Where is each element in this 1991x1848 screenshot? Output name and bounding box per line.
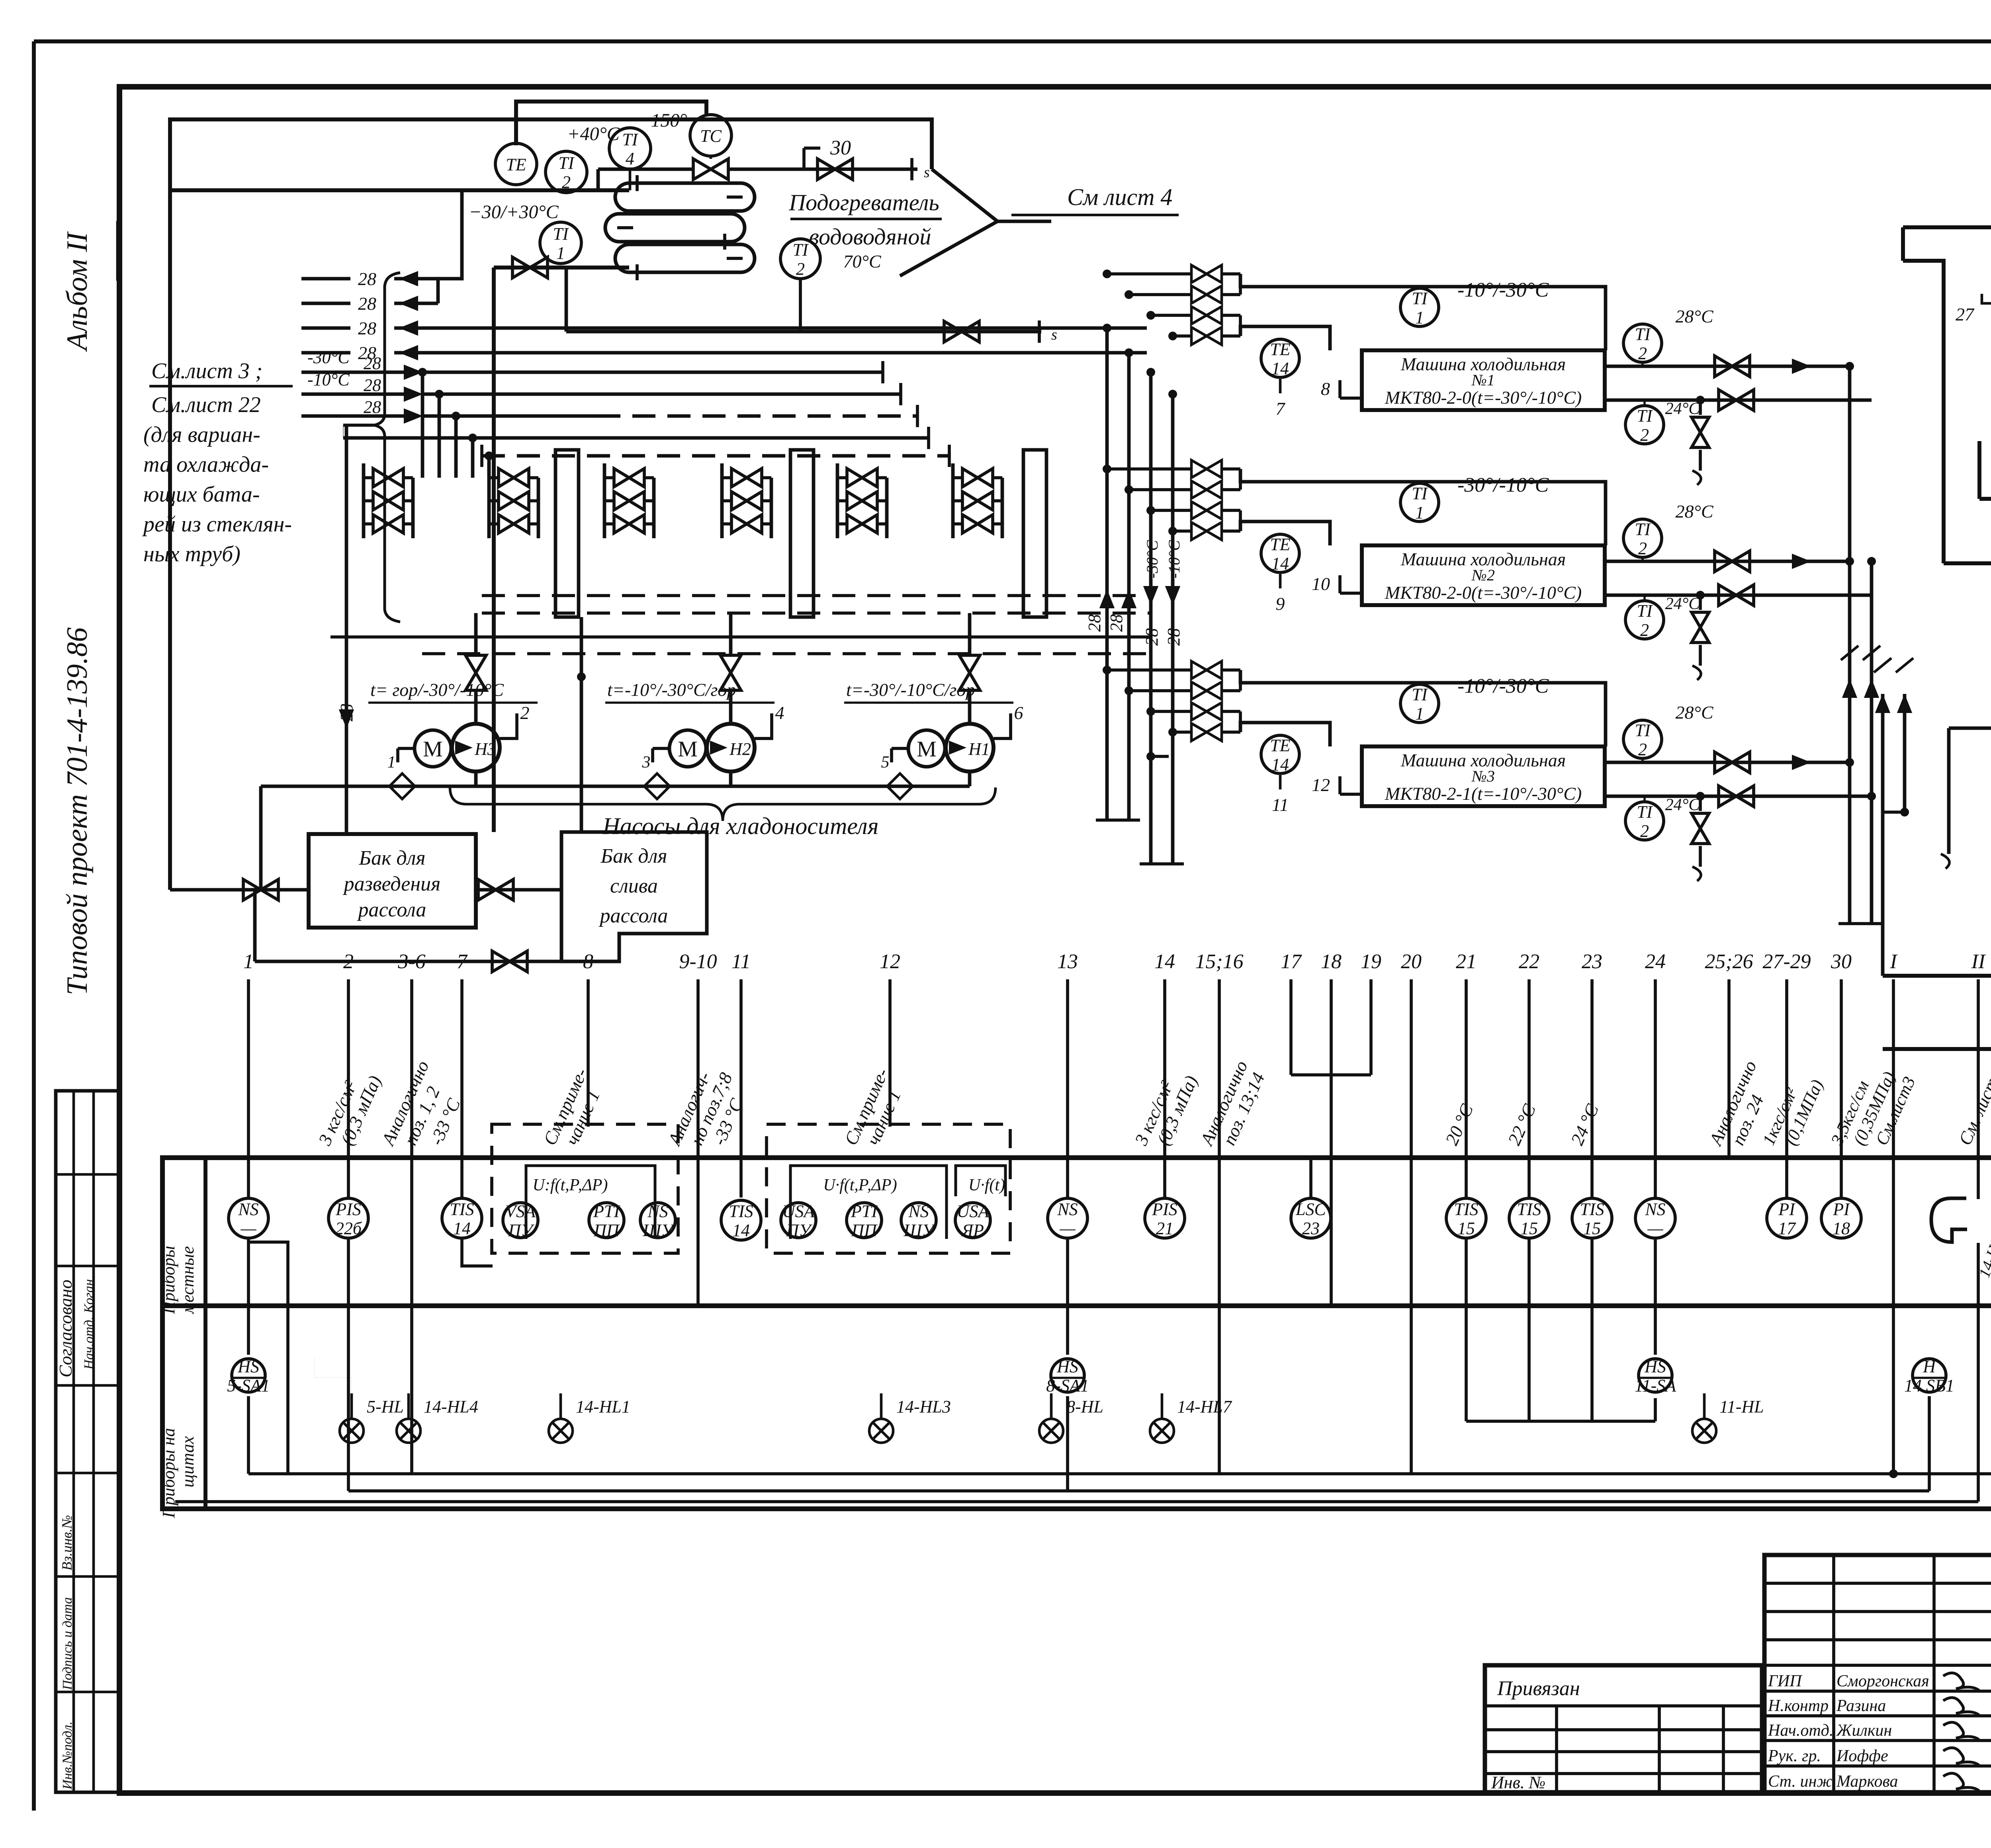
signal line I	[1892, 979, 1895, 1158]
instrument PIS 22b pos2	[329, 1198, 368, 1238]
svg-text:Нач.отд. Коган: Нач.отд. Коган	[82, 1279, 96, 1370]
wire lamp link 5HL	[315, 1358, 352, 1393]
wire 20 drop	[1410, 1158, 1413, 1474]
machine 3 feed pipes	[1239, 670, 1242, 691]
wire line2 y478	[170, 188, 629, 192]
machine 1 valve stack	[1191, 265, 1222, 283]
svg-text:МКТ80-2-0(t=-30°/-10°С): МКТ80-2-0(t=-30°/-10°С)	[1385, 387, 1582, 408]
svg-text:8-НL: 8-НL	[1066, 1397, 1103, 1416]
svg-text:ТЕ: ТЕ	[506, 155, 526, 174]
wire 28 supply line 1	[301, 371, 404, 374]
svg-text:21: 21	[1456, 950, 1477, 973]
signal line 30	[1840, 979, 1843, 1197]
wire main left vertical and top bus	[170, 119, 932, 890]
lamp 5-HL	[340, 1419, 364, 1443]
svg-text:15;16: 15;16	[1195, 950, 1243, 973]
svg-text:14-НL1: 14-НL1	[576, 1397, 630, 1416]
svg-text:18: 18	[1833, 1219, 1850, 1238]
instrument H 14 SB1	[1913, 1359, 1946, 1392]
svg-text:НS: НS	[1644, 1357, 1666, 1376]
svg-text:28: 28	[358, 318, 376, 338]
package dashed box 2	[767, 1124, 1010, 1253]
svg-text:ТЕ: ТЕ	[1270, 535, 1290, 554]
svg-text:11: 11	[1272, 795, 1289, 815]
svg-text:РТI: РТI	[593, 1201, 620, 1221]
wire TE riser	[516, 102, 706, 145]
svg-text:ПУ: ПУ	[786, 1221, 813, 1240]
signal line 24	[1654, 979, 1657, 1197]
sheet outer border	[34, 39, 1991, 43]
svg-text:t= гор/-30°/-10°С: t= гор/-30°/-10°С	[370, 680, 504, 700]
instrument NS ШУ pkg1	[640, 1203, 675, 1238]
svg-text:9-10: 9-10	[679, 950, 717, 973]
svg-text:ТIS: ТIS	[1517, 1199, 1541, 1219]
svg-text:слива: слива	[610, 875, 658, 897]
svg-text:4: 4	[775, 703, 784, 723]
wire pos13 drop	[1066, 1396, 1069, 1491]
svg-text:ТI: ТI	[1637, 601, 1653, 621]
svg-text:24°С: 24°С	[1665, 595, 1700, 613]
bowtie on line1	[818, 159, 853, 180]
svg-text:ТI: ТI	[622, 130, 638, 149]
svg-text:М: М	[423, 737, 443, 762]
svg-text:28: 28	[358, 293, 376, 314]
svg-text:U:f(t,Р,ΔР): U:f(t,Р,ΔР)	[533, 1176, 608, 1194]
instrument TI 2 lower machine 3	[1625, 802, 1664, 840]
svg-text:2: 2	[1640, 821, 1649, 841]
svg-text:ТIS: ТIS	[729, 1201, 753, 1221]
machine 3 warm outlet	[1605, 761, 1850, 764]
bus drop verticals	[421, 372, 424, 478]
svg-text:8: 8	[1321, 379, 1330, 399]
bundle lower tees	[1096, 819, 1118, 822]
svg-text:ТI: ТI	[1635, 721, 1651, 740]
left riser pair to top line	[1901, 227, 1905, 261]
instrument NS pos24	[1635, 1198, 1675, 1238]
svg-text:Подпись и дата: Подпись и дата	[60, 1597, 75, 1690]
svg-text:ТI: ТI	[792, 240, 809, 260]
valve warm outlet 3	[1715, 752, 1750, 773]
svg-text:-30°С: -30°С	[307, 348, 350, 367]
lamp 8-НL	[1039, 1419, 1063, 1443]
instrument TI 2 lower machine 2	[1625, 601, 1664, 639]
svg-text:28: 28	[364, 375, 381, 395]
svg-text:1: 1	[243, 950, 254, 973]
lamp 14-НL1	[549, 1419, 573, 1443]
lamp 14-НL3	[869, 1419, 893, 1443]
right collector riser 2	[1870, 561, 1874, 924]
instrument TI 2 lower machine 1	[1625, 406, 1664, 444]
svg-text:Приборы: Приборы	[159, 1246, 178, 1314]
valve cluster 2	[487, 463, 491, 538]
28 riser bundle verticals	[1105, 328, 1109, 820]
svg-text:ТI: ТI	[1635, 324, 1651, 344]
svg-text:s: s	[924, 164, 930, 181]
signal line II	[1977, 979, 1980, 1158]
svg-text:22: 22	[1519, 950, 1539, 973]
pump motor M Н1	[908, 730, 945, 767]
svg-text:ТI: ТI	[1637, 406, 1653, 426]
bracket sheet references	[374, 273, 400, 622]
wire 28 return line 1	[301, 277, 350, 281]
svg-text:24: 24	[1645, 950, 1666, 973]
return line 1 bottom	[1883, 1047, 1991, 1051]
svg-text:4: 4	[626, 149, 634, 168]
svg-text:30: 30	[830, 137, 851, 159]
svg-text:−30/+30°С: −30/+30°С	[469, 201, 559, 223]
brine pump Н2	[707, 724, 755, 772]
svg-text:-10°/-30°С: -10°/-30°С	[1457, 279, 1549, 301]
line 17-19 bridge	[1291, 1073, 1371, 1076]
signal line 21	[1465, 979, 1468, 1197]
drain angle valve machine 1	[1696, 396, 1705, 404]
svg-text:1: 1	[1415, 503, 1424, 522]
pump suction line	[1883, 974, 1991, 978]
instrument TI 2	[546, 151, 587, 193]
svg-text:ПП: ПП	[851, 1221, 878, 1240]
svg-text:28: 28	[1142, 628, 1162, 646]
svg-text:См лист 4: См лист 4	[1067, 184, 1172, 210]
svg-text:2: 2	[1638, 344, 1647, 363]
bottom wiring bus 3	[175, 1500, 1978, 1503]
svg-text:Сморгонская: Сморгонская	[1836, 1672, 1929, 1690]
svg-text:ГИП: ГИП	[1768, 1672, 1803, 1690]
svg-text:14: 14	[732, 1221, 750, 1240]
instrument HS 8-SA1	[1051, 1359, 1084, 1392]
svg-text:U·f(t,Р,ΔР): U·f(t,Р,ΔР)	[823, 1176, 897, 1194]
valve cluster 1	[362, 463, 366, 538]
svg-text:14-НL4: 14-НL4	[424, 1397, 478, 1416]
pump Н1 suction drop	[968, 772, 972, 786]
svg-text:18: 18	[1321, 950, 1342, 973]
riser rectangles	[555, 450, 579, 617]
svg-text:ющих бата-: ющих бата-	[143, 482, 260, 507]
svg-text:См.лист 22: См.лист 22	[151, 393, 261, 417]
wire pos2 drop	[347, 1239, 350, 1491]
svg-text:рассола: рассола	[598, 904, 668, 927]
svg-text:Бак для: Бак для	[358, 847, 425, 869]
svg-text:ТI: ТI	[1412, 289, 1428, 308]
instrument TI 2 outlet machine 2	[1623, 519, 1662, 557]
instrument table frame	[162, 1158, 1991, 1509]
machine 2 warm outlet	[1605, 560, 1850, 563]
svg-text:24°С: 24°С	[1665, 400, 1700, 418]
svg-text:2: 2	[520, 703, 530, 723]
svg-text:14-НL3: 14-НL3	[896, 1397, 951, 1416]
instrument PIS 21 pos14	[1145, 1198, 1185, 1238]
svg-text:11: 11	[731, 950, 751, 973]
instrument HS 11-SA	[1639, 1359, 1672, 1392]
machine 1 feed pipes	[1239, 274, 1242, 295]
wire tank feed left	[170, 888, 309, 892]
svg-text:2: 2	[796, 259, 805, 279]
wire left vertical to tanks	[492, 268, 496, 832]
svg-text:28: 28	[1164, 628, 1183, 646]
instrument РТI ПП pkg2	[847, 1203, 882, 1238]
svg-text:Инв.№подл.: Инв.№подл.	[60, 1721, 75, 1790]
svg-text:NS: NS	[1645, 1199, 1665, 1219]
wire bus E dashed	[480, 445, 483, 467]
svg-text:Н1: Н1	[968, 739, 990, 759]
wire H14SB1 drop	[1928, 1396, 1931, 1491]
svg-text:t=-30°/-10°С/гор: t=-30°/-10°С/гор	[846, 680, 975, 700]
svg-text:14: 14	[1271, 554, 1289, 573]
svg-text:ШУ: ШУ	[903, 1221, 936, 1240]
makeup line 1 to tank	[1944, 561, 1991, 565]
package dashed box 1	[492, 1124, 678, 1253]
svg-text:-10°С: -10°С	[1165, 540, 1183, 578]
machine 2 feed pipes	[1239, 469, 1242, 490]
svg-text:ПУ: ПУ	[508, 1221, 535, 1240]
valve below TC	[693, 159, 728, 180]
lamp 14-НL4	[397, 1419, 420, 1443]
signal line 20	[1410, 979, 1413, 1158]
svg-text:Ст. инж: Ст. инж	[1768, 1772, 1832, 1791]
instrument HS 5-SA1	[232, 1359, 265, 1392]
signal line 2	[347, 979, 350, 1197]
svg-text:17: 17	[1281, 950, 1302, 973]
instrument TIS 15 pos23	[1572, 1198, 1612, 1238]
angle valve above pump Н1	[959, 655, 980, 690]
svg-text:-30°/-10°С: -30°/-10°С	[1457, 474, 1549, 496]
drain angle valve machine 3	[1696, 792, 1705, 801]
signal line 12	[888, 979, 892, 1127]
svg-text:ТIS: ТIS	[450, 1199, 474, 1219]
machine 2 inlet number 10	[1340, 592, 1362, 595]
svg-text:NS: NS	[238, 1199, 258, 1219]
svg-text:70°С: 70°С	[843, 251, 881, 272]
svg-text:ТI: ТI	[553, 224, 569, 244]
svg-text:Маркова: Маркова	[1836, 1772, 1898, 1791]
svg-text:ТЕ: ТЕ	[1270, 736, 1290, 755]
svg-text:РI: РI	[1778, 1199, 1796, 1219]
pump suction header	[261, 785, 970, 788]
svg-text:6: 6	[1014, 703, 1023, 723]
signal line 11	[739, 979, 743, 1197]
svg-text:14: 14	[1271, 359, 1289, 378]
machine box 2	[1362, 545, 1605, 605]
instrument TIS 15 pos22	[1509, 1198, 1549, 1238]
valve cluster 4	[720, 463, 724, 538]
svg-text:Привязан: Привязан	[1497, 1677, 1580, 1700]
instrument TIS 14 pos7	[442, 1198, 482, 1238]
svg-text:ЯР: ЯР	[961, 1221, 984, 1240]
svg-text:МКТ80-2-0(t=-30°/-10°С): МКТ80-2-0(t=-30°/-10°С)	[1385, 582, 1582, 603]
valve on 672	[512, 257, 548, 278]
svg-text:USА: USА	[957, 1201, 990, 1221]
heat exchanger tube 2	[605, 214, 745, 242]
lower dashed cross bus 1	[482, 594, 1151, 597]
svg-text:Разина: Разина	[1836, 1697, 1886, 1715]
svg-text:14: 14	[1154, 950, 1175, 973]
svg-text:23: 23	[1582, 950, 1602, 973]
wire heater outlet drop	[565, 268, 568, 332]
signal line 18	[1330, 979, 1333, 1158]
wire pump suction to tank	[259, 786, 263, 890]
svg-text:I: I	[1889, 950, 1898, 973]
left margin stamp table	[56, 1091, 119, 1792]
instrument TI 1 machine 1	[1400, 288, 1439, 326]
svg-text:3-6: 3-6	[397, 950, 425, 973]
svg-text:РIS: РIS	[335, 1199, 361, 1219]
svg-text:Вз.инв.№: Вз.инв.№	[59, 1515, 75, 1571]
signal line 15;16	[1218, 979, 1221, 1158]
svg-text:7: 7	[1276, 399, 1286, 419]
lower dashed cross bus 2	[482, 611, 1151, 615]
svg-text:25;26: 25;26	[1705, 950, 1753, 973]
wire 28 return junction riser	[438, 190, 462, 303]
heat exchanger tube 3	[615, 244, 755, 272]
svg-text:28: 28	[364, 397, 381, 417]
svg-text:28: 28	[1085, 614, 1104, 632]
svg-text:—: —	[1647, 1219, 1663, 1238]
signal line 17	[1289, 979, 1293, 1075]
svg-text:Подогреватель: Подогреватель	[788, 189, 939, 215]
svg-text:ТЕ: ТЕ	[1270, 340, 1290, 359]
machine 2 valve stack	[1191, 460, 1222, 478]
svg-text:1: 1	[556, 243, 565, 263]
svg-text:27: 27	[1956, 304, 1975, 324]
instrument USA ЯР	[955, 1203, 990, 1238]
instrument TI 2 heater outlet	[780, 239, 820, 279]
svg-text:28: 28	[364, 354, 381, 373]
svg-text:Приборы на: Приборы на	[159, 1428, 178, 1518]
svg-text:28°С: 28°С	[1675, 702, 1713, 723]
svg-text:щитах: щитах	[178, 1436, 198, 1488]
wire pos7 to package	[462, 1238, 493, 1266]
signal line 19	[1369, 979, 1373, 1075]
left risers near tank	[1881, 694, 1885, 976]
instrument NS pos13	[1048, 1198, 1087, 1238]
svg-text:1: 1	[387, 753, 396, 772]
lower solid bus	[331, 635, 1151, 639]
wire line1-line2 link	[597, 169, 600, 190]
svg-text:—: —	[1059, 1219, 1076, 1238]
brine pump Н1	[946, 724, 994, 772]
svg-text:LSС: LSС	[1295, 1199, 1326, 1219]
valve left of tank1	[243, 879, 278, 900]
signal line 9-10	[696, 979, 700, 1158]
tower collector line	[1979, 497, 1991, 501]
svg-text:ТIS: ТIS	[1580, 1199, 1604, 1219]
wire 18 drop inside	[1330, 1158, 1333, 1306]
svg-text:рей из стеклян-: рей из стеклян-	[142, 512, 292, 537]
wire 28 supply line 3	[301, 414, 404, 418]
svg-text:22б: 22б	[335, 1219, 362, 1238]
tank Бак для разведения рассола	[309, 834, 476, 928]
svg-text:ТI: ТI	[1412, 484, 1428, 503]
signal line 1	[247, 979, 250, 1197]
svg-text:24°С: 24°С	[1665, 796, 1700, 814]
svg-text:ТI: ТI	[1637, 802, 1653, 822]
wire pos II drop	[1977, 1243, 1980, 1502]
instrument LSC 23	[1291, 1198, 1331, 1238]
bundle arrows	[1099, 589, 1115, 608]
valve warm outlet 1	[1715, 356, 1750, 377]
valve bottom line	[492, 951, 527, 972]
tank Бак для слива рассола	[561, 832, 707, 961]
lamp 11-НL	[1692, 1419, 1716, 1443]
svg-text:рассола: рассола	[357, 899, 426, 921]
signal line 8	[587, 979, 590, 1127]
svg-text:Нач.отд.: Нач.отд.	[1768, 1721, 1833, 1740]
instrument PI 17	[1767, 1198, 1807, 1238]
angle valve above pump Н3	[465, 655, 486, 690]
svg-text:28°С: 28°С	[1675, 501, 1713, 522]
svg-text:Жилкин: Жилкин	[1836, 1721, 1892, 1740]
collector break marks	[1841, 646, 1858, 660]
wire 28 return line 4	[301, 351, 350, 355]
title signature table	[1764, 1555, 1991, 1792]
svg-text:17: 17	[1778, 1219, 1796, 1238]
instrument TI 2 outlet machine 3	[1623, 720, 1662, 758]
svg-text:28: 28	[1107, 614, 1126, 632]
wire 28 supply line 2	[301, 393, 404, 396]
svg-text:150°: 150°	[651, 110, 687, 131]
signal line 13	[1066, 979, 1069, 1197]
machine 1 cool outlet	[1605, 399, 1872, 402]
svg-text:№3: №3	[1471, 767, 1495, 785]
heat exchanger tube 1	[615, 183, 755, 211]
svg-text:2: 2	[1640, 425, 1649, 445]
svg-text:14-НL7: 14-НL7	[1177, 1397, 1232, 1416]
instrument TI 4	[609, 128, 651, 169]
svg-text:ТI: ТI	[1635, 520, 1651, 539]
svg-text:8: 8	[583, 950, 593, 973]
svg-text:2: 2	[1638, 539, 1647, 558]
signal line 22	[1527, 979, 1531, 1197]
signal line 27-29	[1785, 979, 1788, 1197]
svg-text:NS: NS	[908, 1201, 929, 1221]
svg-text:ТI: ТI	[558, 153, 575, 173]
svg-text:15: 15	[1583, 1219, 1601, 1238]
pump motor M Н3	[415, 730, 451, 767]
instrument TE 14 pos 11	[1261, 735, 1299, 774]
signal line 3-6	[410, 979, 413, 1158]
wire TI1 line y672	[494, 266, 629, 270]
machine 1 warm outlet	[1605, 365, 1850, 368]
valve cool outlet 3	[1719, 786, 1754, 807]
instrument TE	[495, 143, 537, 185]
pump Н3 suction drop	[474, 772, 478, 786]
svg-text:Н3: Н3	[474, 739, 496, 759]
svg-text:VSА: VSА	[505, 1201, 536, 1221]
svg-text:2: 2	[1638, 740, 1647, 759]
svg-text:ШУ: ШУ	[642, 1221, 675, 1240]
title attach table	[1485, 1665, 1762, 1792]
instrument TI 1 machine 3	[1400, 684, 1439, 723]
machine 2 cool outlet	[1605, 594, 1872, 597]
bottom wiring bus 1	[248, 1472, 1991, 1475]
machine 3 inlet number 12	[1340, 793, 1362, 796]
instrument USA ПУ	[781, 1203, 816, 1238]
svg-text:5: 5	[881, 753, 890, 772]
signal line 25;26	[1727, 979, 1731, 1158]
condenser water top line 1	[1903, 225, 1991, 229]
svg-text:ПП: ПП	[593, 1221, 620, 1240]
svg-text:ТI: ТI	[1412, 685, 1428, 704]
wire tank bottom line	[255, 960, 561, 963]
angle valve above pump Н2	[720, 655, 741, 690]
package solid bracket ЯР	[956, 1166, 1005, 1196]
wire outlet line y833	[566, 330, 1041, 334]
svg-text:разведения: разведения	[342, 873, 441, 895]
wire bus D	[343, 436, 929, 440]
svg-text:местные: местные	[178, 1246, 198, 1315]
instrument TI 1 machine 2	[1400, 483, 1439, 522]
svg-text:М: М	[678, 737, 698, 762]
svg-text:Н.контр: Н.контр	[1768, 1697, 1829, 1715]
